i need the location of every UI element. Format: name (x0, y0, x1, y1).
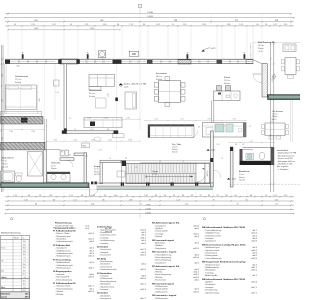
svg-text:Parkett: Parkett (89, 95, 95, 98)
sideboard (148, 125, 198, 138)
svg-text:1.01: 1.01 (273, 24, 277, 26)
svg-text:14: 14 (14, 24, 16, 26)
svg-text:76: 76 (173, 195, 175, 197)
svg-text:1.01: 1.01 (90, 129, 93, 131)
svg-text:d=20,0: d=20,0 (193, 277, 199, 279)
svg-text:1.26: 1.26 (49, 195, 53, 197)
svg-text:- Ständerwerk ged.: - Ständerwerk ged. (204, 263, 220, 266)
svg-text:d=20,0: d=20,0 (251, 241, 257, 243)
svg-text:D2 Vordach: D2 Vordach (97, 293, 109, 295)
svg-text:862: 862 (100, 20, 103, 22)
svg-text:- Innenputz: - Innenputz (204, 286, 213, 289)
svg-text:d=17,5: d=17,5 (88, 286, 94, 288)
svg-text:- Splittbett: - Splittbett (154, 227, 163, 230)
svg-text:12,5 m²: 12,5 m² (272, 113, 278, 116)
svg-text:- Dämmung EPS: - Dämmung EPS (55, 277, 70, 279)
svg-text:Essen: Essen (1, 248, 5, 250)
svg-text:- Innenputz: - Innenputz (99, 251, 108, 254)
shower (28, 152, 43, 177)
svg-text:19,3: 19,3 (23, 254, 26, 256)
svg-text:64: 64 (246, 199, 248, 201)
svg-text:3.85: 3.85 (16, 66, 19, 68)
left dimension chain (1, 45, 4, 192)
svg-text:d=5,0: d=5,0 (141, 252, 146, 254)
svg-text:d=20,0: d=20,0 (251, 282, 257, 284)
staircase (121, 161, 213, 187)
svg-text:76: 76 (39, 195, 41, 197)
svg-text:d=17,5: d=17,5 (251, 292, 257, 294)
svg-text:- Extensivbegrünung: - Extensivbegrünung (154, 273, 171, 276)
svg-text:- KS-Mauerwerk: - KS-Mauerwerk (99, 277, 112, 280)
svg-text:2.26: 2.26 (2, 99, 4, 102)
svg-text:d=1,5: d=1,5 (141, 235, 146, 237)
svg-text:d=5,0: d=5,0 (89, 262, 94, 264)
svg-text:18,5 m²: 18,5 m² (156, 75, 163, 78)
svg-text:88: 88 (107, 129, 109, 131)
svg-text:- Frostschürze: - Frostschürze (99, 248, 111, 251)
svg-text:10,9: 10,9 (23, 270, 26, 272)
svg-text:- Brüstungen h=90 cm: - Brüstungen h=90 cm (277, 160, 296, 163)
svg-text:20,6: 20,6 (23, 264, 26, 266)
vanity counter (47, 172, 70, 182)
svg-text:788: 788 (174, 20, 177, 22)
svg-text:- Gefälledämmung: - Gefälledämmung (204, 233, 219, 235)
witness x140 (139, 64, 141, 130)
bottom dimension chains (4, 195, 294, 220)
svg-text:d=10,0: d=10,0 (193, 225, 199, 227)
legend columns (53, 226, 94, 295)
wc room walls (240, 147, 275, 165)
svg-text:5,5 m²: 5,5 m² (51, 164, 56, 167)
svg-text:Fliesen: Fliesen (2, 164, 8, 166)
svg-text:d=11,5: d=11,5 (88, 268, 94, 270)
svg-text:W3 Innenwand n. tragend: W3 Innenwand n. tragend (152, 294, 177, 297)
svg-text:2.26: 2.26 (31, 24, 35, 26)
top dimension chain (4, 4, 295, 30)
svg-text:2.01: 2.01 (52, 24, 56, 26)
svg-text:1.26: 1.26 (24, 199, 28, 201)
svg-text:d=10,0: d=10,0 (88, 256, 94, 258)
svg-text:1.485: 1.485 (34, 28, 39, 30)
svg-text:d=6,5: d=6,5 (194, 269, 199, 271)
svg-text:- Extensivbegrünung: - Extensivbegrünung (154, 256, 171, 259)
svg-text:76: 76 (237, 204, 239, 206)
svg-text:d=2,0: d=2,0 (252, 253, 257, 255)
svg-text:d=22,0: d=22,0 (88, 233, 94, 235)
svg-text:- Extensivbegrünung: - Extensivbegrünung (99, 280, 116, 283)
svg-text:1.14: 1.14 (13, 195, 17, 197)
svg-text:- Innenputz: - Innenputz (99, 242, 108, 245)
svg-text:64: 64 (191, 195, 193, 197)
room area table (1, 232, 30, 299)
svg-text:- Gipskarton beids.: - Gipskarton beids. (204, 291, 220, 294)
svg-text:1.245: 1.245 (90, 28, 95, 30)
svg-text:88: 88 (69, 155, 71, 157)
svg-text:- Trittschalldämmung: - Trittschalldämmung (204, 229, 221, 232)
small sink pair corridor (46, 150, 68, 156)
kitchen counter (203, 123, 247, 138)
entrance door (90, 182, 99, 197)
svg-text:89: 89 (182, 195, 184, 197)
svg-text:WD: WD (132, 52, 136, 56)
svg-text:d=1,5: d=1,5 (89, 250, 94, 252)
low cabinet below corridor wall (113, 134, 125, 138)
svg-text:2.26: 2.26 (126, 118, 129, 120)
svg-text:628: 628 (34, 20, 37, 22)
sofa (89, 75, 115, 91)
svg-text:99: 99 (200, 195, 202, 197)
svg-text:- Betonplatten: - Betonplatten (99, 283, 110, 286)
svg-text:- Innenputz: - Innenputz (204, 237, 213, 240)
svg-text:99: 99 (265, 195, 267, 197)
living sideboard (84, 118, 122, 128)
svg-text:d=5,0: d=5,0 (141, 240, 146, 242)
svg-text:W5 Haustrennwand, 2-schalig, K: W5 Haustrennwand, 2-schalig, KS gem. Sta… (202, 243, 246, 246)
svg-text:W1 Außenwand tragend, Stb.: W1 Außenwand tragend, Stb. (152, 265, 180, 268)
svg-text:86: 86 (250, 195, 252, 197)
nightstand (54, 80, 60, 86)
svg-text:d=22,0: d=22,0 (140, 255, 146, 257)
east terrace table (262, 100, 293, 142)
living room label (89, 89, 102, 98)
svg-text:64: 64 (276, 204, 278, 206)
svg-text:Fliesen: Fliesen (224, 83, 230, 85)
svg-text:- Extensivbegrünung: - Extensivbegrünung (154, 259, 171, 262)
witness lines bottom (8, 190, 262, 197)
svg-text:+0,13: +0,13 (211, 48, 216, 50)
svg-text:88: 88 (61, 152, 63, 154)
svg-text:- Sauberkeitsschicht: - Sauberkeitsschicht (99, 228, 116, 231)
svg-text:- Gipskarton beids.: - Gipskarton beids. (55, 285, 71, 288)
svg-text:2.01: 2.01 (156, 24, 160, 26)
svg-text:- Dampfsperre: - Dampfsperre (154, 224, 166, 227)
svg-text:WM: WM (83, 145, 87, 147)
svg-text:d=6,5: d=6,5 (89, 248, 94, 250)
svg-text:1.26: 1.26 (239, 24, 243, 26)
svg-text:d=15,0: d=15,0 (140, 278, 146, 280)
svg-text:1.89: 1.89 (103, 24, 107, 26)
svg-text:1.38: 1.38 (227, 24, 231, 26)
grill (283, 44, 296, 52)
svg-text:1.14: 1.14 (272, 118, 274, 121)
svg-text:2.01: 2.01 (108, 140, 111, 142)
svg-text:99: 99 (104, 195, 106, 197)
svg-text:d=1,5: d=1,5 (252, 235, 257, 237)
scattered dim texts (55, 92, 251, 169)
svg-text:2.64: 2.64 (272, 153, 274, 156)
svg-text:99: 99 (164, 195, 166, 197)
dim line kitchen zone (144, 119, 246, 121)
svg-text:d=22,0: d=22,0 (193, 248, 199, 250)
svg-text:- Trennlage: - Trennlage (99, 236, 108, 239)
dining table (154, 77, 185, 107)
svg-text:d=11,5: d=11,5 (193, 274, 199, 276)
svg-text:d=1,5: d=1,5 (89, 288, 94, 290)
svg-text:Badezimmer: Badezimmer (2, 157, 14, 160)
bathtub (1, 171, 15, 182)
svg-text:- Sauberkeitsschicht: - Sauberkeitsschicht (99, 234, 116, 237)
svg-text:3,5 m²: 3,5 m² (239, 173, 244, 176)
svg-text:d=2,0: d=2,0 (252, 247, 257, 249)
svg-text:d=6,5: d=6,5 (194, 280, 199, 282)
svg-text:6,0 m²: 6,0 m² (94, 168, 99, 171)
svg-text:d=11,5: d=11,5 (140, 237, 146, 239)
svg-text:76: 76 (217, 195, 219, 197)
level marker top right (202, 48, 216, 52)
svg-text:- Verblendmauerwerk: - Verblendmauerwerk (55, 252, 73, 255)
svg-text:- Verblendmauerwerk: - Verblendmauerwerk (55, 264, 73, 267)
svg-text:d=10,0: d=10,0 (140, 269, 146, 271)
svg-text:- Dampfsperre: - Dampfsperre (154, 247, 166, 250)
svg-text:d=10,0: d=10,0 (251, 250, 257, 252)
svg-text:1.485: 1.485 (146, 205, 151, 207)
bed (1, 64, 55, 120)
svg-text:2.14: 2.14 (104, 118, 107, 120)
svg-text:76: 76 (265, 24, 267, 26)
svg-text:Gäste-WC: Gäste-WC (51, 162, 61, 165)
toilet wc (259, 152, 265, 159)
svg-text:Fliesen: Fliesen (94, 171, 100, 173)
svg-text:21,5 m²: 21,5 m² (15, 78, 22, 81)
guest room walls (60, 150, 87, 183)
svg-text:5,6: 5,6 (24, 257, 26, 259)
svg-text:1.76: 1.76 (85, 24, 89, 26)
section marker A (272, 73, 276, 79)
witness lines top (8, 14, 291, 58)
svg-text:63: 63 (242, 144, 244, 146)
svg-text:99: 99 (149, 199, 151, 201)
svg-text:20,2: 20,2 (23, 280, 26, 282)
kitchen island (214, 86, 241, 101)
svg-text:1.76: 1.76 (129, 24, 133, 26)
svg-text:86: 86 (81, 195, 83, 197)
left exterior wall (5, 64, 6, 114)
svg-text:1.38: 1.38 (91, 195, 95, 197)
legend header blocks (55, 223, 113, 233)
svg-text:F1 Fußbodenaufbau EG: F1 Fußbodenaufbau EG (53, 283, 76, 285)
svg-text:14: 14 (70, 24, 72, 26)
svg-text:1.89: 1.89 (207, 119, 210, 121)
svg-text:1.26: 1.26 (183, 24, 187, 26)
svg-text:1.38: 1.38 (129, 199, 133, 201)
svg-text:89: 89 (28, 195, 30, 197)
toilet bathroom (16, 173, 23, 182)
svg-text:- Betonplatten: - Betonplatten (154, 268, 165, 271)
svg-text:- Trennlage: - Trennlage (99, 275, 108, 278)
svg-text:d=6,5: d=6,5 (141, 264, 146, 266)
svg-text:1.76: 1.76 (232, 119, 235, 121)
svg-text:29,9: 29,9 (23, 267, 26, 269)
svg-text:29,8: 29,8 (23, 248, 26, 250)
svg-text:39: 39 (69, 118, 71, 120)
svg-text:- Dampfsperre: - Dampfsperre (154, 261, 166, 264)
svg-text:- Innenputz: - Innenputz (99, 288, 108, 291)
svg-text:76: 76 (213, 199, 215, 201)
svg-text:1.51: 1.51 (2, 74, 4, 77)
svg-text:Parkett: Parkett (15, 81, 21, 84)
svg-text:Planinhalt: Grundriss EG: Planinhalt: Grundriss EG (53, 226, 74, 229)
svg-text:- Splittbett: - Splittbett (204, 281, 213, 284)
svg-text:d=10,0: d=10,0 (193, 257, 199, 259)
svg-text:3.26: 3.26 (39, 98, 41, 101)
tv cabinet (125, 92, 137, 109)
svg-text:- Verblendmauerwerk: - Verblendmauerwerk (55, 240, 73, 243)
svg-text:W4 Kelleraußenwand, Stahlbeton: W4 Kelleraußenwand, Stahlbeton WU, C25/3… (202, 278, 246, 281)
bottom window band right segment (97, 182, 214, 189)
kitchen/corridor wall stub (212, 101, 214, 123)
svg-text:- Ständerwerk ged.: - Ständerwerk ged. (55, 267, 71, 270)
wall bath/guest (44, 150, 47, 183)
svg-text:63: 63 (198, 127, 200, 129)
svg-text:d=10,0: d=10,0 (88, 277, 94, 279)
svg-text:d=5,0: d=5,0 (252, 238, 257, 240)
flur label (172, 143, 181, 154)
svg-text:89: 89 (226, 195, 228, 197)
svg-text:- Zementestrich: - Zementestrich (204, 252, 217, 255)
svg-text:86: 86 (103, 199, 105, 201)
svg-text:F3 Terrassenbelag: F3 Terrassenbelag (53, 259, 71, 261)
svg-text:d=22,0: d=22,0 (251, 270, 257, 272)
terrace door arc (253, 74, 262, 83)
svg-text:W7 Attika: W7 Attika (97, 257, 107, 260)
wall right of stairs (210, 131, 213, 187)
svg-text:Küche: Küche (224, 77, 231, 79)
svg-text:1.01: 1.01 (85, 156, 88, 158)
svg-text:Platten: Platten (272, 115, 277, 118)
svg-text:- Frostschürze: - Frostschürze (154, 279, 166, 282)
svg-text:76: 76 (109, 158, 111, 160)
dim line above wc (228, 141, 275, 143)
wall above stairs (140, 162, 210, 164)
svg-text:04.06.: 04.06. (85, 228, 90, 230)
svg-text:- Gipskarton beids.: - Gipskarton beids. (204, 249, 220, 252)
dim line mid2 (45, 140, 140, 142)
svg-text:H=2,50: H=2,50 (94, 174, 100, 176)
svg-text:d=22,0: d=22,0 (251, 233, 257, 235)
svg-text:86: 86 (143, 24, 145, 26)
svg-text:d=8,0: d=8,0 (141, 276, 146, 278)
svg-text:1.51: 1.51 (73, 199, 77, 201)
svg-text:- Parkett geklebt: - Parkett geklebt (204, 254, 218, 257)
svg-text:- Gefälledämmung: - Gefälledämmung (55, 250, 70, 252)
svg-text:- Verblendmauerwerk: - Verblendmauerwerk (99, 268, 117, 271)
svg-text:1.14: 1.14 (87, 118, 90, 120)
svg-text:2.145: 2.145 (145, 209, 151, 211)
svg-text:- PE-Folie: - PE-Folie (154, 272, 162, 274)
dashed property line (230, 183, 300, 185)
svg-text:- Bestandsmauer erh.: - Bestandsmauer erh. (277, 154, 295, 157)
svg-text:F2 Fußboden Bad: F2 Fußboden Bad (53, 245, 71, 247)
washbasin wc (246, 154, 254, 160)
svg-text:W2 Innenwand tragend: W2 Innenwand tragend (152, 282, 175, 285)
svg-text:1.76: 1.76 (53, 140, 56, 142)
level marker mid (207, 149, 216, 152)
svg-text:1.89: 1.89 (128, 140, 131, 142)
svg-text:1.48: 1.48 (9, 131, 12, 133)
svg-text:W3 Innenwand n. tragend: W3 Innenwand n. tragend (152, 251, 177, 254)
svg-text:- Ständerwerk ged.: - Ständerwerk ged. (204, 246, 220, 249)
svg-text:d=22,0: d=22,0 (251, 258, 257, 260)
svg-text:D1 Dachaufbau: D1 Dachaufbau (97, 227, 112, 229)
svg-text:F1 Fußbodenaufbau EG: F1 Fußbodenaufbau EG (53, 230, 76, 232)
wardrobe band 2 (1, 142, 46, 150)
svg-text:- Substrat: - Substrat (55, 290, 63, 293)
svg-text:2.26: 2.26 (31, 131, 34, 133)
svg-text:- Trittschalldämmung: - Trittschalldämmung (204, 257, 221, 260)
margin notes (277, 149, 297, 171)
svg-text:2.26: 2.26 (108, 93, 110, 96)
svg-text:Platten: Platten (258, 47, 264, 50)
svg-text:- Splittbett: - Splittbett (154, 244, 163, 247)
svg-text:- Zementestrich: - Zementestrich (99, 265, 112, 268)
svg-text:88: 88 (235, 144, 237, 146)
svg-text:2.01: 2.01 (2, 167, 4, 170)
wall segment y160 (100, 160, 121, 163)
svg-text:- Fliesen i. Kleber: - Fliesen i. Kleber (55, 232, 70, 235)
svg-text:d=15,0: d=15,0 (88, 291, 94, 293)
svg-text:1.51: 1.51 (69, 195, 73, 197)
right exterior wall hatched (253, 60, 267, 97)
guest label (51, 162, 61, 171)
dining room label (156, 72, 167, 81)
svg-text:- Schotterbett: - Schotterbett (99, 263, 111, 266)
wardrobe band 1 (1, 117, 44, 125)
svg-text:- Schotterbett: - Schotterbett (55, 238, 67, 241)
svg-text:76: 76 (182, 161, 184, 163)
svg-text:- Extensivbegrünung: - Extensivbegrünung (55, 278, 72, 281)
terrace table (282, 58, 300, 79)
interior dim line living (83, 118, 140, 120)
svg-text:Wohnfläche: Wohnfläche (1, 293, 10, 295)
svg-text:Süd-Terrasse EG: Süd-Terrasse EG (258, 41, 275, 44)
svg-text:186,0: 186,0 (25, 297, 29, 299)
svg-text:1.01: 1.01 (273, 195, 277, 197)
svg-text:1.14: 1.14 (55, 92, 58, 94)
svg-text:1.14: 1.14 (284, 195, 288, 197)
svg-text:d=15,0: d=15,0 (193, 291, 199, 293)
svg-text:86: 86 (155, 195, 157, 197)
svg-text:1.39: 1.39 (98, 150, 101, 152)
terrace edge lines (250, 43, 300, 60)
svg-text:- PE-Folie: - PE-Folie (154, 277, 162, 279)
svg-text:d=22,0: d=22,0 (88, 239, 94, 241)
svg-text:nachrichtlich:: nachrichtlich: (277, 149, 289, 152)
corridor wall (62, 130, 118, 147)
svg-text:Planbezeichnung: Planbezeichnung (55, 223, 72, 225)
svg-text:- Fenster nach DIN: - Fenster nach DIN (277, 157, 293, 160)
svg-text:1.26: 1.26 (144, 195, 148, 197)
svg-text:- Ständerwerk ged.: - Ständerwerk ged. (55, 255, 71, 258)
svg-text:- Abdichtung: - Abdichtung (154, 242, 164, 245)
svg-text:d=17,5: d=17,5 (251, 267, 257, 269)
svg-text:2.441: 2.441 (145, 212, 151, 214)
level marker bottom right (227, 178, 236, 180)
svg-text:86: 86 (257, 24, 259, 26)
svg-text:- Parkett geklebt: - Parkett geklebt (154, 230, 168, 233)
svg-text:Ost-Terrasse: Ost-Terrasse (272, 110, 283, 113)
svg-text:+0,13: +0,13 (258, 51, 263, 53)
svg-text:- Innenputz: - Innenputz (55, 273, 64, 276)
svg-text:86: 86 (117, 24, 119, 26)
svg-text:d=2,0: d=2,0 (194, 262, 199, 264)
svg-text:575: 575 (235, 20, 238, 22)
svg-text:64: 64 (53, 199, 55, 201)
svg-text:1.14: 1.14 (284, 24, 288, 26)
svg-text:- KS-Mauerwerk: - KS-Mauerwerk (154, 290, 167, 293)
shoe cabinet (117, 171, 125, 177)
svg-text:11: 11 (172, 24, 174, 26)
svg-text:- Dampfsperre: - Dampfsperre (55, 247, 67, 250)
